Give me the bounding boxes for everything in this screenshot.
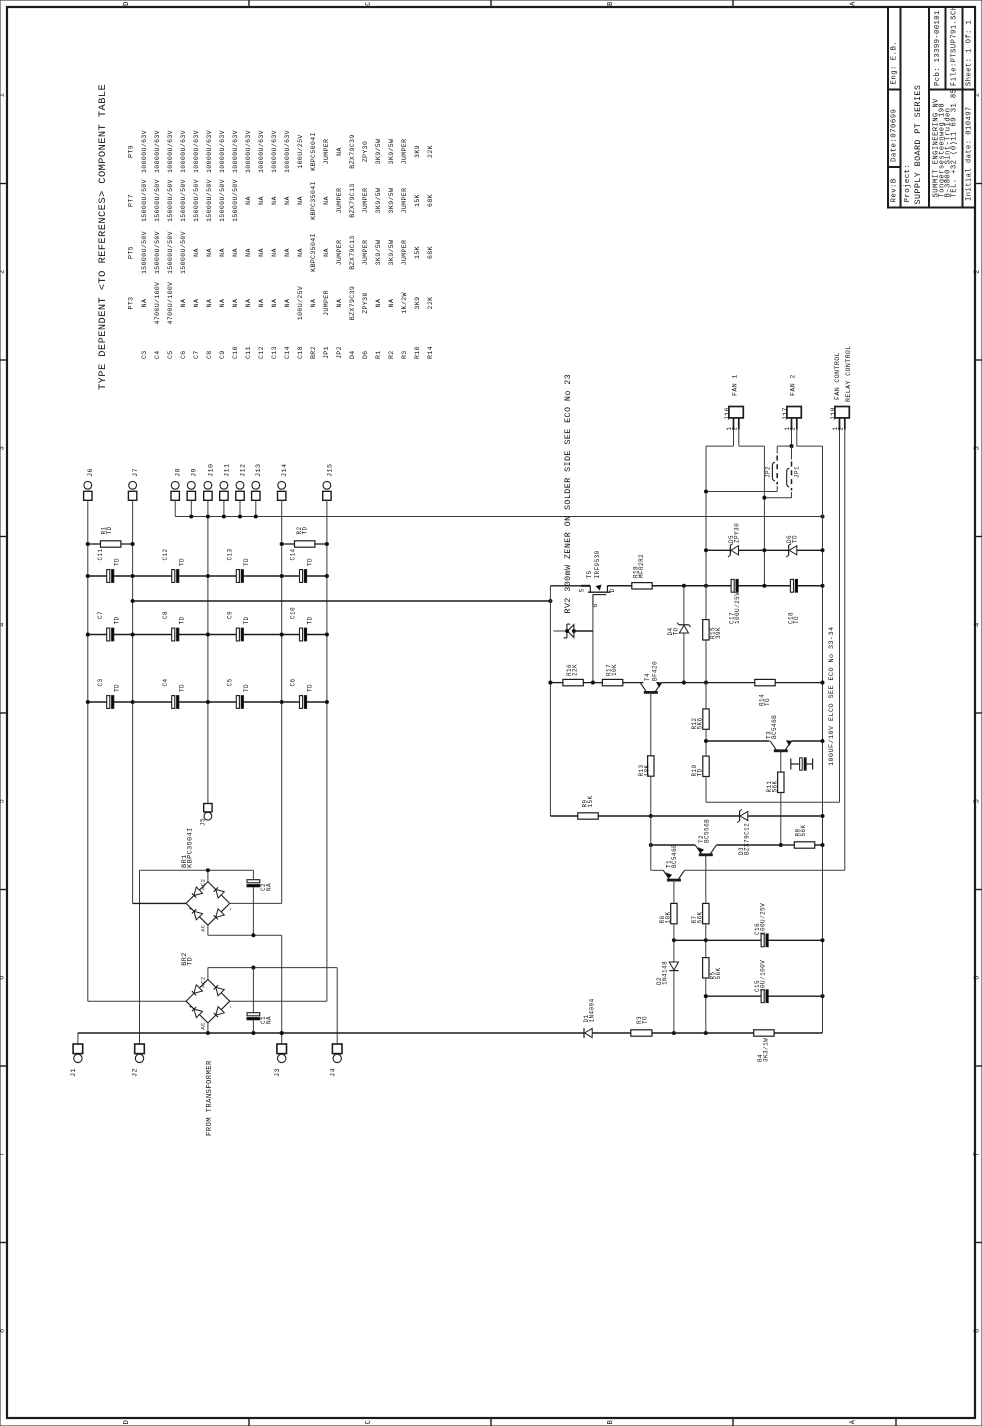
svg-text:J18: J18 — [830, 407, 838, 421]
svg-text:NA: NA — [206, 299, 213, 308]
resistor R15 — [705, 586, 707, 620]
wire capacitor row 2 — [88, 634, 107, 636]
connector J9 — [187, 481, 195, 489]
connector J12 — [236, 481, 244, 489]
svg-text:J2: J2 — [132, 1068, 140, 1077]
svg-text:J5: J5 — [200, 818, 207, 826]
svg-text:J3: J3 — [274, 1068, 282, 1077]
svg-text:Project:: Project: — [904, 164, 912, 203]
svg-text:NA: NA — [141, 299, 148, 308]
wire J17 pin2 route to bus — [796, 430, 798, 447]
svg-text:10000U/63V: 10000U/63V — [167, 130, 174, 173]
svg-text:3K9/5W: 3K9/5W — [375, 139, 382, 165]
svg-text:C4: C4 — [162, 678, 169, 686]
resistor R11 — [780, 751, 782, 772]
capacitor C13 — [236, 570, 239, 583]
wire J14 column — [281, 500, 283, 903]
resistor R17 — [602, 679, 622, 685]
resistor R3 — [631, 1030, 652, 1036]
svg-text:15000U/50V: 15000U/50V — [154, 231, 161, 274]
svg-text:TD: TD — [792, 535, 799, 543]
svg-text:Date:070699: Date:070699 — [891, 109, 899, 162]
capacitor elco 100UF/10V — [790, 759, 792, 770]
svg-text:C18: C18 — [297, 346, 304, 359]
wire bus to R4 corner — [822, 996, 824, 1033]
svg-text:4700U/100V: 4700U/100V — [154, 282, 161, 325]
wire T4 base to R13 — [650, 692, 652, 755]
svg-text:C3: C3 — [97, 678, 104, 686]
svg-text:IRF9530: IRF9530 — [594, 550, 601, 578]
svg-text:C: C — [365, 1, 373, 6]
svg-text:NA: NA — [271, 248, 278, 257]
svg-text:BZX79C13: BZX79C13 — [349, 235, 356, 269]
svg-text:NA: NA — [375, 299, 382, 308]
transistor T5 IRF9530 — [581, 585, 590, 587]
svg-text:100U/25V: 100U/25V — [297, 134, 304, 168]
svg-text:TO: TO — [642, 1016, 649, 1024]
svg-text:R3: R3 — [401, 350, 408, 359]
svg-text:FAN 2: FAN 2 — [790, 374, 797, 396]
svg-text:NA: NA — [336, 147, 343, 156]
svg-text:BC546B: BC546B — [671, 844, 678, 868]
svg-text:3K9/5W: 3K9/5W — [388, 240, 395, 266]
wire J2 to BR1 AC2 — [139, 870, 141, 1044]
svg-text:TD: TD — [306, 558, 313, 566]
svg-text:15K: 15K — [587, 795, 594, 807]
wire J15 column — [326, 500, 328, 1001]
transistor T2 BC556B — [699, 853, 713, 856]
svg-text:C6: C6 — [180, 350, 187, 359]
svg-text:NA: NA — [232, 299, 239, 308]
connector J2 — [135, 1044, 145, 1054]
svg-text:D: D — [123, 1420, 131, 1425]
svg-text:C14: C14 — [284, 346, 291, 359]
wire J17 pin1 — [791, 430, 793, 447]
svg-text:Initial date: 010497: Initial date: 010497 — [966, 106, 974, 201]
svg-text:JUMPER: JUMPER — [336, 240, 343, 266]
wire C16 line — [674, 939, 761, 941]
capacitor C5 — [236, 696, 239, 709]
svg-text:J11: J11 — [223, 464, 231, 478]
wire BR2 + to J6 column — [88, 1000, 186, 1002]
svg-text:2: 2 — [974, 269, 982, 274]
svg-text:MFR2R2: MFR2R2 — [638, 554, 645, 578]
transistor T3 BC546B — [774, 749, 788, 752]
svg-text:15000U/50V: 15000U/50V — [141, 231, 148, 274]
resistor R10 — [703, 756, 709, 776]
svg-text:3K9/5W: 3K9/5W — [375, 240, 382, 266]
resistor R14 — [755, 679, 775, 685]
svg-text:4: 4 — [974, 622, 982, 627]
svg-text:3: 3 — [974, 446, 982, 451]
svg-text:BR2: BR2 — [310, 346, 317, 359]
bridge rectifier BR1 — [186, 882, 230, 926]
svg-text:10000U/63V: 10000U/63V — [258, 130, 265, 173]
svg-text:10000U/63V: 10000U/63V — [219, 130, 226, 173]
diode D4 — [683, 586, 685, 625]
svg-text:PT5: PT5 — [127, 246, 134, 259]
svg-text:3K3/1W: 3K3/1W — [763, 1038, 770, 1062]
wire capacitor row 1 — [88, 575, 107, 577]
resistor R18 — [632, 583, 652, 589]
resistor R1 — [101, 541, 121, 547]
svg-text:NA: NA — [219, 248, 226, 257]
diode D6 — [764, 549, 788, 551]
svg-text:JUMPER: JUMPER — [323, 139, 330, 165]
svg-text:10000U/63V: 10000U/63V — [245, 130, 252, 173]
svg-text:C6: C6 — [290, 678, 297, 686]
svg-text:NA: NA — [297, 196, 304, 205]
svg-text:NA: NA — [180, 299, 187, 308]
svg-text:BZX79C12: BZX79C12 — [744, 823, 751, 855]
wire R10 to J18 pin1 — [706, 801, 840, 803]
svg-text:10000U/63V: 10000U/63V — [141, 130, 148, 173]
connector J16 — [729, 407, 743, 418]
svg-text:6: 6 — [0, 975, 7, 980]
connector J6 — [84, 481, 92, 489]
svg-text:NA: NA — [219, 299, 226, 308]
svg-text:+: + — [188, 1004, 195, 1008]
svg-text:15000U/50V: 15000U/50V — [141, 179, 148, 222]
svg-text:JUMPER: JUMPER — [323, 290, 330, 316]
svg-text:NA: NA — [284, 248, 291, 257]
svg-text:100U/25V: 100U/25V — [297, 286, 304, 320]
svg-text:BC546B: BC546B — [771, 715, 778, 739]
svg-text:7: 7 — [0, 1152, 7, 1157]
svg-text:R1: R1 — [375, 350, 382, 359]
svg-text:D6: D6 — [362, 350, 369, 359]
svg-text:NA: NA — [297, 248, 304, 257]
connector J8 — [171, 481, 179, 489]
svg-text:Rev:B: Rev:B — [891, 178, 899, 202]
svg-text:1K/2W: 1K/2W — [401, 292, 408, 314]
connector J7 — [129, 481, 137, 489]
svg-text:TD: TD — [179, 558, 186, 566]
svg-text:TD: TD — [114, 558, 121, 566]
svg-text:AC: AC — [200, 924, 207, 932]
connector J3 — [277, 1044, 287, 1054]
svg-text:R14: R14 — [427, 346, 434, 359]
svg-text:10U/100V: 10U/100V — [760, 960, 767, 992]
svg-text:TD: TD — [106, 526, 113, 534]
svg-text:JUMPER: JUMPER — [401, 188, 408, 214]
svg-text:D4: D4 — [349, 350, 356, 359]
svg-text:TD: TD — [243, 684, 250, 692]
svg-text:C8: C8 — [162, 611, 169, 619]
svg-text:FAN 1: FAN 1 — [732, 374, 739, 396]
svg-text:J10: J10 — [207, 464, 215, 478]
svg-text:A: A — [850, 1, 858, 6]
wire T2 collector/emitter line — [651, 844, 695, 846]
capacitor C3 — [107, 696, 110, 709]
svg-text:FROM TRANSFORMER: FROM TRANSFORMER — [206, 1060, 214, 1136]
svg-text:C14: C14 — [290, 548, 297, 560]
svg-text:TO: TO — [673, 627, 680, 635]
svg-text:10000U/63V: 10000U/63V — [180, 130, 187, 173]
svg-text:4700U/100V: 4700U/100V — [167, 282, 174, 325]
svg-text:AC: AC — [200, 1022, 207, 1030]
svg-text:3K9/5W: 3K9/5W — [388, 139, 395, 165]
wire positive rail J7 to T5 source — [133, 600, 551, 602]
connector J11 — [220, 481, 228, 489]
svg-text:TD: TD — [306, 684, 313, 692]
wire BR2 - to J15 column — [230, 1000, 327, 1002]
svg-text:-: - — [227, 907, 234, 911]
svg-text:NA: NA — [310, 299, 317, 308]
svg-text:C8: C8 — [206, 350, 213, 359]
svg-text:C10: C10 — [232, 346, 239, 359]
wire J8 stub — [174, 500, 176, 516]
capacitor C8 — [172, 628, 175, 641]
svg-text:NA: NA — [245, 196, 252, 205]
svg-text:J4: J4 — [329, 1068, 337, 1077]
wire J11 stub — [223, 500, 225, 516]
svg-text:68K: 68K — [427, 246, 434, 259]
svg-text:10K: 10K — [644, 764, 651, 776]
svg-text:C7: C7 — [193, 350, 200, 359]
svg-text:15000U/50V: 15000U/50V — [232, 179, 239, 222]
svg-text:J14: J14 — [281, 464, 289, 478]
svg-text:J15: J15 — [326, 464, 334, 478]
svg-text:15000U/50V: 15000U/50V — [206, 179, 213, 222]
svg-text:AC2: AC2 — [200, 879, 207, 890]
svg-text:22K: 22K — [427, 297, 434, 310]
svg-text:NA: NA — [323, 196, 330, 205]
connector J15 — [323, 481, 331, 489]
svg-text:39K: 39K — [715, 627, 722, 639]
svg-text:NA: NA — [258, 196, 265, 205]
wire J13 stub — [255, 500, 257, 516]
svg-text:C12: C12 — [162, 548, 169, 560]
svg-text:B: B — [607, 1, 615, 6]
capacitor C9 — [236, 628, 239, 641]
svg-text:68K: 68K — [427, 194, 434, 207]
svg-text:NA: NA — [284, 196, 291, 205]
svg-text:TD: TD — [243, 558, 250, 566]
svg-text:TD: TD — [306, 616, 313, 624]
svg-text:NA: NA — [265, 1016, 272, 1024]
wire T3 collector line — [706, 740, 770, 742]
svg-text:15000U/50V: 15000U/50V — [154, 179, 161, 222]
wire BR2 AC1 — [207, 1023, 209, 1033]
wire source column to R16 and R9 — [549, 601, 551, 816]
connector J1 — [73, 1044, 83, 1054]
svg-text:TD: TD — [243, 616, 250, 624]
wire C15 line — [706, 995, 761, 997]
svg-text:PT3: PT3 — [127, 297, 134, 310]
capacitor C2 — [252, 870, 254, 880]
svg-text:TD: TD — [697, 768, 704, 776]
svg-text:JUMPER: JUMPER — [401, 240, 408, 266]
svg-text:TD: TD — [187, 957, 195, 966]
svg-text:J7: J7 — [132, 468, 140, 477]
connector J10 — [204, 481, 212, 489]
wire J16 pin1 route — [733, 430, 735, 447]
svg-text:15000U/50V: 15000U/50V — [180, 179, 187, 222]
svg-text:C4: C4 — [154, 350, 161, 359]
wire J7 column — [132, 500, 134, 903]
svg-text:15K: 15K — [414, 246, 421, 259]
svg-text:J13: J13 — [255, 464, 263, 478]
svg-text:15000U/50V: 15000U/50V — [180, 231, 187, 274]
capacitor C14 — [300, 570, 303, 583]
connector J18 — [835, 407, 849, 418]
svg-text:22K: 22K — [427, 145, 434, 158]
svg-text:C11: C11 — [245, 346, 252, 359]
svg-text:RELAY CONTROL: RELAY CONTROL — [845, 345, 852, 402]
svg-text:BF420: BF420 — [651, 661, 658, 681]
wire J18 pin2 to T1 — [844, 430, 846, 871]
svg-text:JP1: JP1 — [794, 466, 801, 478]
wire bottom transformer line — [78, 1032, 584, 1034]
svg-text:JUMPER: JUMPER — [336, 188, 343, 214]
svg-text:15000U/50V: 15000U/50V — [193, 179, 200, 222]
bridge rectifier BR2 — [186, 979, 230, 1023]
svg-text:3K9/5W: 3K9/5W — [388, 188, 395, 214]
svg-text:8: 8 — [974, 1328, 982, 1333]
svg-text:TD: TD — [302, 526, 309, 534]
svg-text:56K: 56K — [771, 780, 778, 792]
svg-text:TO: TO — [793, 616, 800, 624]
resistor R6 — [671, 903, 677, 923]
wire T5 source — [550, 585, 581, 587]
svg-text:T5: T5 — [586, 570, 593, 578]
svg-text:TD: TD — [114, 684, 121, 692]
svg-text:56K: 56K — [696, 911, 703, 923]
transistor T1 BC546B — [667, 879, 681, 882]
svg-text:C11: C11 — [97, 548, 104, 560]
svg-text:1N4004: 1N4004 — [589, 998, 596, 1022]
svg-text:SUPPLY BOARD PT SERIES: SUPPLY BOARD PT SERIES — [913, 85, 923, 205]
jumper JP1 — [791, 446, 793, 459]
svg-text:D: D — [123, 1, 131, 6]
svg-text:D: D — [609, 588, 616, 592]
svg-text:7: 7 — [974, 1152, 982, 1157]
wire R9 line — [550, 815, 577, 817]
wire BR1 + to J7 column — [133, 902, 187, 904]
svg-text:10000U/63V: 10000U/63V — [154, 130, 161, 173]
svg-text:KBPC3504I: KBPC3504I — [187, 827, 195, 868]
svg-text:2: 2 — [0, 269, 7, 274]
diode D5 — [706, 549, 730, 551]
svg-text:Sheet: 1 Of: 1: Sheet: 1 Of: 1 — [966, 20, 974, 86]
svg-text:TEL. +32 (0)11 69 31 85: TEL. +32 (0)11 69 31 85 — [950, 89, 958, 198]
svg-text:100UF/10V ELCO SEE ECO No 33-3: 100UF/10V ELCO SEE ECO No 33-34 — [828, 627, 836, 766]
svg-text:NA: NA — [336, 299, 343, 308]
svg-text:100U/25V: 100U/25V — [734, 592, 741, 624]
svg-text:C9: C9 — [219, 350, 226, 359]
svg-text:PT7: PT7 — [127, 194, 134, 207]
capacitor C16 — [761, 934, 764, 947]
svg-text:NA: NA — [323, 248, 330, 257]
svg-text:4: 4 — [0, 622, 7, 627]
connector J13 — [252, 481, 260, 489]
wire T1 base to R6 — [673, 880, 675, 903]
diode D1 — [583, 1028, 585, 1038]
resistor R7 — [703, 903, 709, 923]
svg-text:S: S — [579, 588, 586, 592]
svg-text:NA: NA — [193, 248, 200, 257]
wire BR1 - to J14 column — [230, 902, 282, 904]
svg-text:C9: C9 — [226, 611, 233, 619]
svg-text:2: 2 — [731, 426, 738, 430]
svg-text:22K: 22K — [572, 664, 579, 676]
resistor R8 — [781, 844, 795, 846]
svg-text:15K: 15K — [414, 194, 421, 207]
svg-text:15000U/50V: 15000U/50V — [167, 231, 174, 274]
svg-text:JUMPER: JUMPER — [362, 240, 369, 266]
capacitor C4 — [172, 696, 175, 709]
wire J9 stub — [190, 500, 192, 516]
svg-text:10K: 10K — [664, 911, 671, 923]
svg-text:10K: 10K — [611, 664, 618, 676]
capacitor C11 — [107, 570, 110, 583]
svg-text:3: 3 — [0, 446, 7, 451]
svg-text:ZPY30: ZPY30 — [733, 523, 740, 543]
svg-text:C3: C3 — [141, 350, 148, 359]
svg-text:J1: J1 — [70, 1068, 78, 1077]
svg-text:BZX79C39: BZX79C39 — [349, 134, 356, 168]
svg-text:B: B — [607, 1420, 615, 1425]
svg-text:NA: NA — [271, 299, 278, 308]
svg-text:NA: NA — [265, 883, 272, 891]
svg-text:56K: 56K — [800, 824, 807, 836]
wire T2 base to R7 — [705, 855, 707, 904]
wire common bus J8-J13 to right circuit — [175, 516, 822, 518]
capacitor C1 — [252, 968, 254, 1013]
svg-text:15000U/50V: 15000U/50V — [219, 179, 226, 222]
resistor R2 — [295, 541, 315, 547]
svg-text:100U/25V: 100U/25V — [760, 903, 767, 935]
connector J17 — [787, 407, 801, 418]
svg-text:NA: NA — [206, 248, 213, 257]
svg-text:FAN CONTROL: FAN CONTROL — [834, 352, 841, 400]
svg-text:J8: J8 — [175, 468, 183, 477]
svg-text:C10: C10 — [290, 607, 297, 619]
svg-text:ZPY30: ZPY30 — [362, 141, 369, 163]
svg-text:3K9: 3K9 — [414, 297, 421, 310]
jumper JP2 — [776, 446, 778, 453]
svg-text:3K9: 3K9 — [414, 145, 421, 158]
svg-text:C13: C13 — [271, 346, 278, 359]
svg-text:KBPC3504I: KBPC3504I — [310, 233, 317, 272]
resistor R13 — [648, 756, 654, 776]
wire capacitor row 3 — [88, 701, 107, 703]
wire J12 stub — [239, 500, 241, 516]
capacitor C12 — [172, 570, 175, 583]
svg-text:Pcb: 13399-00101: Pcb: 13399-00101 — [934, 10, 942, 86]
svg-text:AC2: AC2 — [200, 976, 207, 987]
svg-text:C13: C13 — [226, 548, 233, 560]
wire JP2 bottom to XA — [706, 491, 777, 493]
connector J4 — [332, 1044, 342, 1054]
svg-text:A: A — [850, 1419, 858, 1424]
svg-text:KBPC3504I: KBPC3504I — [310, 181, 317, 220]
capacitor C10 — [300, 628, 303, 641]
svg-text:JUMPER: JUMPER — [401, 139, 408, 165]
svg-text:JP2: JP2 — [765, 466, 772, 478]
wire J16 pin2 route — [738, 430, 740, 447]
wire T5 drain line — [607, 585, 631, 587]
wire J10/J5 column — [207, 517, 209, 804]
svg-text:TO: TO — [764, 698, 771, 706]
title block — [888, 7, 975, 208]
svg-text:10000U/63V: 10000U/63V — [271, 130, 278, 173]
svg-text:10000U/63V: 10000U/63V — [232, 130, 239, 173]
svg-text:5: 5 — [0, 799, 7, 804]
svg-text:56K: 56K — [715, 967, 722, 979]
svg-text:+: + — [188, 906, 195, 910]
